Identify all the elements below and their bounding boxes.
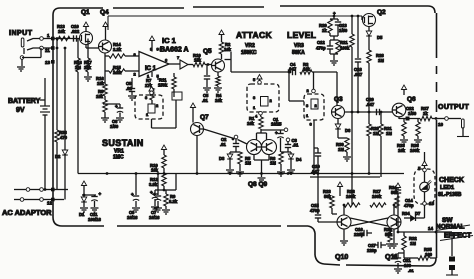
svg-text:.01: .01 xyxy=(408,268,414,273)
svg-text:8.2k: 8.2k xyxy=(169,199,178,204)
svg-text:.022: .022 xyxy=(71,29,80,34)
svg-text:BA662 A: BA662 A xyxy=(160,47,189,54)
svg-text:470p: 470p xyxy=(404,203,414,208)
svg-text:50KA: 50KA xyxy=(292,50,305,56)
svg-text:56k: 56k xyxy=(324,194,332,199)
svg-text:10k: 10k xyxy=(84,65,92,70)
svg-text:2.2k: 2.2k xyxy=(113,47,122,52)
svg-text:10k: 10k xyxy=(247,121,255,126)
svg-text:100k: 100k xyxy=(346,194,356,199)
svg-text:15: 15 xyxy=(429,201,435,206)
svg-text:D5: D5 xyxy=(377,35,383,40)
svg-text:Q10: Q10 xyxy=(335,254,348,261)
svg-text:1MC: 1MC xyxy=(113,155,124,161)
svg-text:AC ADAPTOR: AC ADAPTOR xyxy=(2,208,52,217)
svg-text:Q2: Q2 xyxy=(377,9,386,16)
svg-text:10/16: 10/16 xyxy=(149,215,160,220)
svg-text:INPUT: INPUT xyxy=(9,30,33,37)
svg-text:11: 11 xyxy=(45,48,50,53)
svg-text:IC 1: IC 1 xyxy=(145,66,157,72)
svg-text:ATTACK: ATTACK xyxy=(236,30,273,40)
svg-text:CHECK: CHECK xyxy=(439,177,464,184)
svg-text:1M: 1M xyxy=(338,147,344,152)
svg-text:1M: 1M xyxy=(410,241,416,246)
svg-text:.01: .01 xyxy=(220,142,226,147)
svg-text:BATTERY: BATTERY xyxy=(8,98,41,105)
svg-text:10: 10 xyxy=(438,122,444,127)
svg-text:150k: 150k xyxy=(158,83,168,88)
svg-text:SL-P135B: SL-P135B xyxy=(438,192,462,198)
svg-text:470: 470 xyxy=(60,135,68,140)
svg-text:+: + xyxy=(131,192,134,197)
svg-text:+: + xyxy=(333,11,336,16)
svg-text:+: + xyxy=(115,104,118,109)
svg-text:+: + xyxy=(393,254,396,259)
svg-text:Q7: Q7 xyxy=(200,114,209,121)
svg-text:LEVEL: LEVEL xyxy=(287,30,316,40)
svg-text:220p: 220p xyxy=(367,248,377,253)
svg-text:100k: 100k xyxy=(410,148,420,153)
svg-text:Q8 Q9: Q8 Q9 xyxy=(248,181,268,188)
svg-text:IC 1: IC 1 xyxy=(162,36,176,45)
svg-text:10/25: 10/25 xyxy=(271,122,282,127)
svg-text:D6: D6 xyxy=(345,128,351,133)
svg-text:12: 12 xyxy=(47,201,53,206)
svg-text:470p: 470p xyxy=(316,46,326,51)
svg-text:1M: 1M xyxy=(270,161,276,166)
svg-text:100k: 100k xyxy=(372,194,382,199)
svg-text:1M: 1M xyxy=(245,161,251,166)
svg-text:VR3: VR3 xyxy=(294,43,304,49)
svg-text:+: + xyxy=(275,131,278,136)
svg-text:3.9k: 3.9k xyxy=(149,182,158,187)
svg-text:Q1: Q1 xyxy=(81,9,90,16)
svg-text:Q3: Q3 xyxy=(334,96,343,103)
svg-text:VR2: VR2 xyxy=(245,43,255,49)
svg-text:100k: 100k xyxy=(340,46,350,51)
svg-text:Q5: Q5 xyxy=(203,48,212,55)
svg-text:10k: 10k xyxy=(398,148,406,153)
svg-text:10k: 10k xyxy=(58,29,66,34)
svg-text:+: + xyxy=(99,192,102,197)
svg-text:1M: 1M xyxy=(386,131,392,136)
svg-text:10k: 10k xyxy=(224,47,232,52)
svg-text:SUSTAIN: SUSTAIN xyxy=(102,138,144,148)
svg-text:D2: D2 xyxy=(55,154,61,159)
svg-text:D3: D3 xyxy=(219,156,225,161)
svg-text:OUTPUT: OUTPUT xyxy=(438,104,469,111)
svg-text:15k: 15k xyxy=(194,58,202,63)
svg-text:10/16: 10/16 xyxy=(127,215,138,220)
svg-text:D7: D7 xyxy=(415,211,421,216)
svg-text:R21: R21 xyxy=(340,40,348,45)
svg-text:D4: D4 xyxy=(296,157,302,162)
svg-text:C12: C12 xyxy=(317,40,325,45)
svg-text:10k: 10k xyxy=(151,168,159,173)
svg-text:1k: 1k xyxy=(322,28,327,33)
svg-text:1/50: 1/50 xyxy=(408,111,417,116)
svg-text:9V: 9V xyxy=(16,107,25,114)
svg-text:Q6: Q6 xyxy=(407,96,416,103)
svg-text:1M: 1M xyxy=(75,65,81,70)
svg-text:.047: .047 xyxy=(366,102,375,107)
svg-text:R34: R34 xyxy=(402,211,410,216)
svg-text:.01: .01 xyxy=(293,143,299,148)
svg-text:150KC: 150KC xyxy=(241,50,257,56)
svg-text:14: 14 xyxy=(428,226,434,231)
svg-text:LED1: LED1 xyxy=(440,185,454,191)
svg-text:1k: 1k xyxy=(423,111,428,116)
svg-text:.01: .01 xyxy=(202,98,208,103)
svg-text:13: 13 xyxy=(45,60,51,65)
svg-text:1/50: 1/50 xyxy=(110,124,119,129)
svg-text:+: + xyxy=(153,192,156,197)
svg-text:15k: 15k xyxy=(97,81,105,86)
svg-text:D1: D1 xyxy=(79,212,85,217)
svg-text:10k: 10k xyxy=(215,98,223,103)
svg-text:1M: 1M xyxy=(378,58,384,63)
svg-text:100/16: 100/16 xyxy=(88,217,101,222)
svg-text:Q4: Q4 xyxy=(100,9,109,16)
svg-text:1/50: 1/50 xyxy=(339,28,348,33)
